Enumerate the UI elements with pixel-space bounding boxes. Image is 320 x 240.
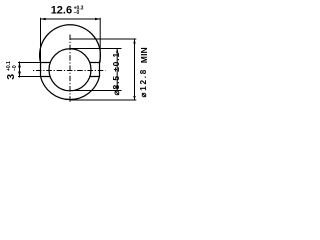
dimension dia 12.8 : top extension line	[70, 38, 136, 40]
dimension dia 8.5 : bottom arrowhead	[116, 86, 118, 90]
svg-text:−0: −0	[74, 10, 80, 16]
svg-text:3: 3	[5, 74, 17, 80]
dimension 3 +0.1/-0 : dimension line	[19, 62, 21, 78]
dimension 12.6 +0.3/-0 : dimension line	[41, 18, 101, 20]
slot bottom edge right segment	[90, 76, 100, 78]
dimension 12.6 : left arrowhead	[41, 18, 46, 20]
svg-text:MIN: MIN	[139, 47, 149, 63]
dimension 3 : top extension line	[18, 62, 41, 64]
dimension dia 8.5 : bottom extension line	[70, 90, 122, 92]
svg-text:⌀12.8: ⌀12.8	[139, 68, 148, 97]
svg-text:12.6: 12.6	[51, 5, 72, 17]
slot right flat	[99, 63, 101, 77]
dimension 3 : bottom extension line	[18, 76, 41, 78]
dimension dia 12.8 : bottom arrowhead	[133, 96, 135, 100]
inner circle (dia 8.5 hole)	[49, 49, 91, 91]
svg-text:⌀8.5 ±0.1: ⌀8.5 ±0.1	[111, 52, 121, 95]
dimension 12.6 : right arrowhead	[95, 18, 100, 20]
vertical centerline	[69, 35, 71, 104]
slot top edge left segment	[41, 62, 51, 64]
dimension 12.6 : right extension line	[99, 18, 101, 63]
svg-text:−0: −0	[12, 65, 18, 71]
slot top edge right segment	[90, 62, 100, 64]
dimension dia 8.5 : dimension line	[116, 49, 118, 91]
dimension dia 12.8 : bottom extension line	[70, 99, 136, 101]
outer circle (dia 12.8 boundary)	[40, 25, 101, 100]
dimension dia 8.5 : top extension line	[70, 48, 122, 50]
dimension dia 8.5 : top arrowhead	[116, 49, 118, 53]
dimension dia 12.8 : top arrowhead	[133, 39, 135, 44]
dimension 3 : top arrowhead	[18, 63, 21, 68]
dimension dia 12.8 : dimension line	[134, 39, 136, 100]
slot bottom edge left segment	[41, 76, 51, 78]
dimension 12.6 : left extension line	[40, 18, 42, 63]
slot left flat	[40, 63, 42, 77]
dimension 3 : bottom arrowhead	[18, 72, 21, 77]
horizontal centerline	[33, 70, 106, 72]
